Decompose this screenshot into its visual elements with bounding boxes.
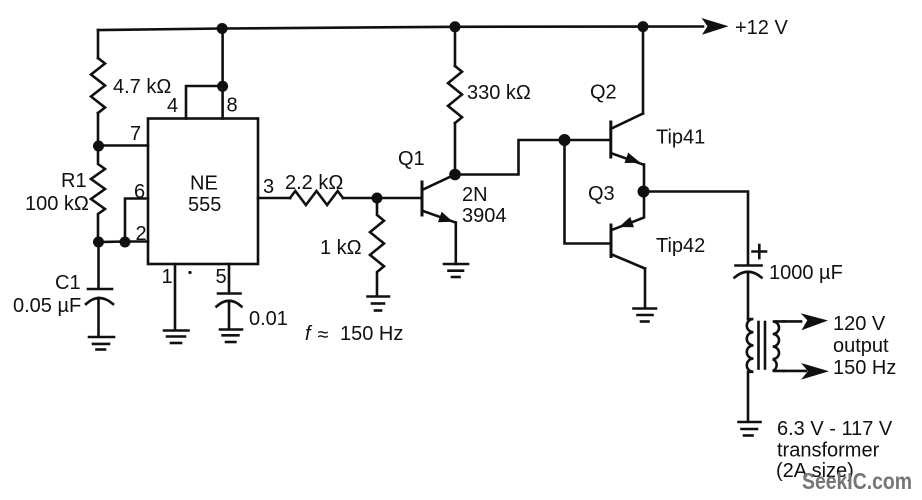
svg-text:0.01: 0.01: [249, 308, 288, 330]
transformer T1 secondary winding: [773, 321, 784, 371]
label (2A size): [776, 460, 854, 482]
node pin2/6 junction dot right: [120, 237, 131, 248]
svg-text:R1: R1: [61, 170, 87, 192]
wire pin7: [99, 144, 149, 147]
label Tip42: [656, 235, 705, 257]
resistor 4.7k: [91, 58, 105, 146]
capacitor 1000uF plus sign: [753, 245, 767, 258]
label output: [833, 335, 889, 357]
pin label 3: [263, 176, 274, 198]
speck between pins: [188, 271, 191, 274]
wire pin8 stub: [221, 29, 224, 119]
svg-text:3904: 3904: [462, 205, 507, 227]
label f = 150 Hz: [305, 323, 403, 346]
svg-text:Q1: Q1: [398, 148, 425, 170]
svg-text:555: 555: [188, 194, 221, 216]
svg-text:f: f: [305, 323, 313, 345]
svg-text:Tip42: Tip42: [656, 235, 705, 257]
capacitor 0.01 pin5: [217, 294, 242, 330]
wire pin1 stub: [174, 264, 177, 330]
label transformer: [777, 440, 880, 462]
IC U1 NE555 timer box: [148, 119, 258, 265]
label Q1: [398, 148, 425, 170]
svg-text:150 Hz: 150 Hz: [833, 357, 896, 379]
svg-text:SeekIC.com: SeekIC.com: [802, 468, 912, 494]
label 4.7 kOhm: [113, 76, 171, 98]
label 1 kOhm: [320, 237, 362, 259]
transistor Q3 Tip42: [611, 192, 645, 309]
svg-text:2.2 kΩ: 2.2 kΩ: [285, 172, 343, 194]
wire output node to capacitor: [644, 192, 749, 266]
svg-text:+12 V: +12 V: [735, 17, 788, 39]
ground C1: [89, 337, 114, 350]
label +12 V: [735, 17, 788, 39]
resistor 2.2k: [290, 191, 377, 205]
node pin8 bridge dot: [217, 81, 228, 92]
label 100 kOhm: [25, 193, 89, 215]
pin label 1: [162, 266, 173, 288]
pin label 2: [136, 223, 147, 245]
resistor 1k: [370, 198, 384, 296]
label Tip41: [656, 127, 705, 149]
svg-text:0.05 µF: 0.05 µF: [13, 295, 81, 317]
transistor Q2 Tip41: [565, 114, 645, 192]
transformer T1 primary winding: [747, 319, 754, 422]
ground Q1 emitter: [444, 264, 468, 277]
svg-text:6: 6: [134, 181, 145, 203]
pin label 5: [216, 266, 227, 288]
ground Q3 collector: [634, 309, 657, 322]
svg-text:7: 7: [130, 123, 141, 145]
wire pin3: [258, 197, 290, 200]
wire Q2 collector to rail: [642, 27, 645, 114]
capacitor C1: [86, 289, 113, 336]
label Q2: [590, 82, 617, 104]
node pin2/6 junction dot left: [93, 237, 104, 248]
wire Q1 collector to Q2 base: [455, 140, 565, 175]
pin label 7: [130, 123, 141, 145]
transistor Q1 2N3904: [377, 175, 456, 265]
pin label 4: [167, 95, 178, 117]
wire R1 to C1: [97, 242, 100, 288]
wire pin2: [99, 240, 149, 243]
ground 1k: [368, 297, 390, 311]
svg-text:2: 2: [136, 223, 147, 245]
output arrow bottom: [801, 363, 829, 380]
svg-text:output: output: [833, 335, 889, 357]
node Q2/Q3 emitter dot: [638, 186, 650, 198]
ground pin1: [164, 331, 189, 344]
label NE 555: [188, 173, 221, 217]
label 150 Hz: [833, 357, 896, 379]
transformer T1 core: [759, 322, 766, 369]
ground pin5: [220, 330, 242, 343]
svg-text:1: 1: [162, 266, 173, 288]
label Q3: [588, 183, 615, 205]
svg-text:150 Hz: 150 Hz: [340, 323, 403, 345]
label 2N: [462, 184, 488, 206]
node Q2 base junction dot: [559, 134, 571, 146]
svg-text:Q2: Q2: [590, 82, 617, 104]
node Q2 collector rail dot: [638, 21, 649, 32]
svg-text:4: 4: [167, 95, 178, 117]
label 120 V: [833, 313, 886, 335]
wire left branch top: [97, 30, 100, 58]
wire secondary bottom output: [784, 370, 806, 373]
label 2.2 kOhm: [285, 172, 343, 194]
node pin7 junction dot: [93, 141, 104, 152]
svg-text:Tip41: Tip41: [656, 127, 705, 149]
svg-text:2N: 2N: [462, 184, 488, 206]
svg-text:8: 8: [227, 95, 238, 117]
svg-text:6.3 V - 117 V: 6.3 V - 117 V: [777, 418, 893, 440]
label 330 kOhm: [467, 82, 531, 104]
svg-text:1 kΩ: 1 kΩ: [320, 237, 362, 259]
svg-text:120 V: 120 V: [833, 313, 886, 335]
label 1000 uF: [769, 262, 843, 284]
svg-text:transformer: transformer: [777, 440, 880, 462]
node top rail dot above pin8: [217, 23, 228, 34]
output arrow top: [801, 313, 828, 330]
wire pin6: [125, 199, 148, 243]
svg-text:C1: C1: [55, 272, 81, 294]
resistor R1: [91, 146, 105, 242]
label 0.01: [249, 308, 288, 330]
svg-text:100 kΩ: 100 kΩ: [25, 193, 89, 215]
svg-text:330 kΩ: 330 kΩ: [467, 82, 531, 104]
label C1: [55, 272, 81, 294]
wire +12V top rail: [98, 27, 703, 31]
label 3904: [462, 205, 507, 227]
svg-text:5: 5: [216, 266, 227, 288]
node Q1 collector dot: [449, 169, 461, 181]
svg-text:4.7 kΩ: 4.7 kΩ: [113, 76, 171, 98]
wire secondary top output: [784, 320, 801, 323]
svg-text:Q3: Q3: [588, 183, 615, 205]
capacitor 1000uF: [735, 266, 762, 320]
wire Q3 base from node: [565, 140, 612, 244]
node 330k top rail dot: [450, 21, 461, 32]
pin label 6: [134, 181, 145, 203]
node Q1 base junction dot: [372, 193, 383, 204]
svg-text:3: 3: [263, 176, 274, 198]
wire pin5 stub: [228, 264, 231, 293]
svg-text:NE: NE: [190, 173, 218, 195]
resistor 330k: [448, 27, 462, 175]
label R1: [61, 170, 87, 192]
svg-text:1000 µF: 1000 µF: [769, 262, 843, 284]
label 0.05 uF: [13, 295, 81, 317]
wire pin4 stub: [186, 86, 223, 119]
ground transformer: [739, 422, 761, 436]
pin label 8: [227, 95, 238, 117]
+12V supply arrow: [702, 18, 729, 35]
watermark SeekIC.com: [802, 468, 912, 494]
svg-text:≈: ≈: [318, 324, 329, 346]
label 6.3 V - 117 V: [777, 418, 893, 440]
